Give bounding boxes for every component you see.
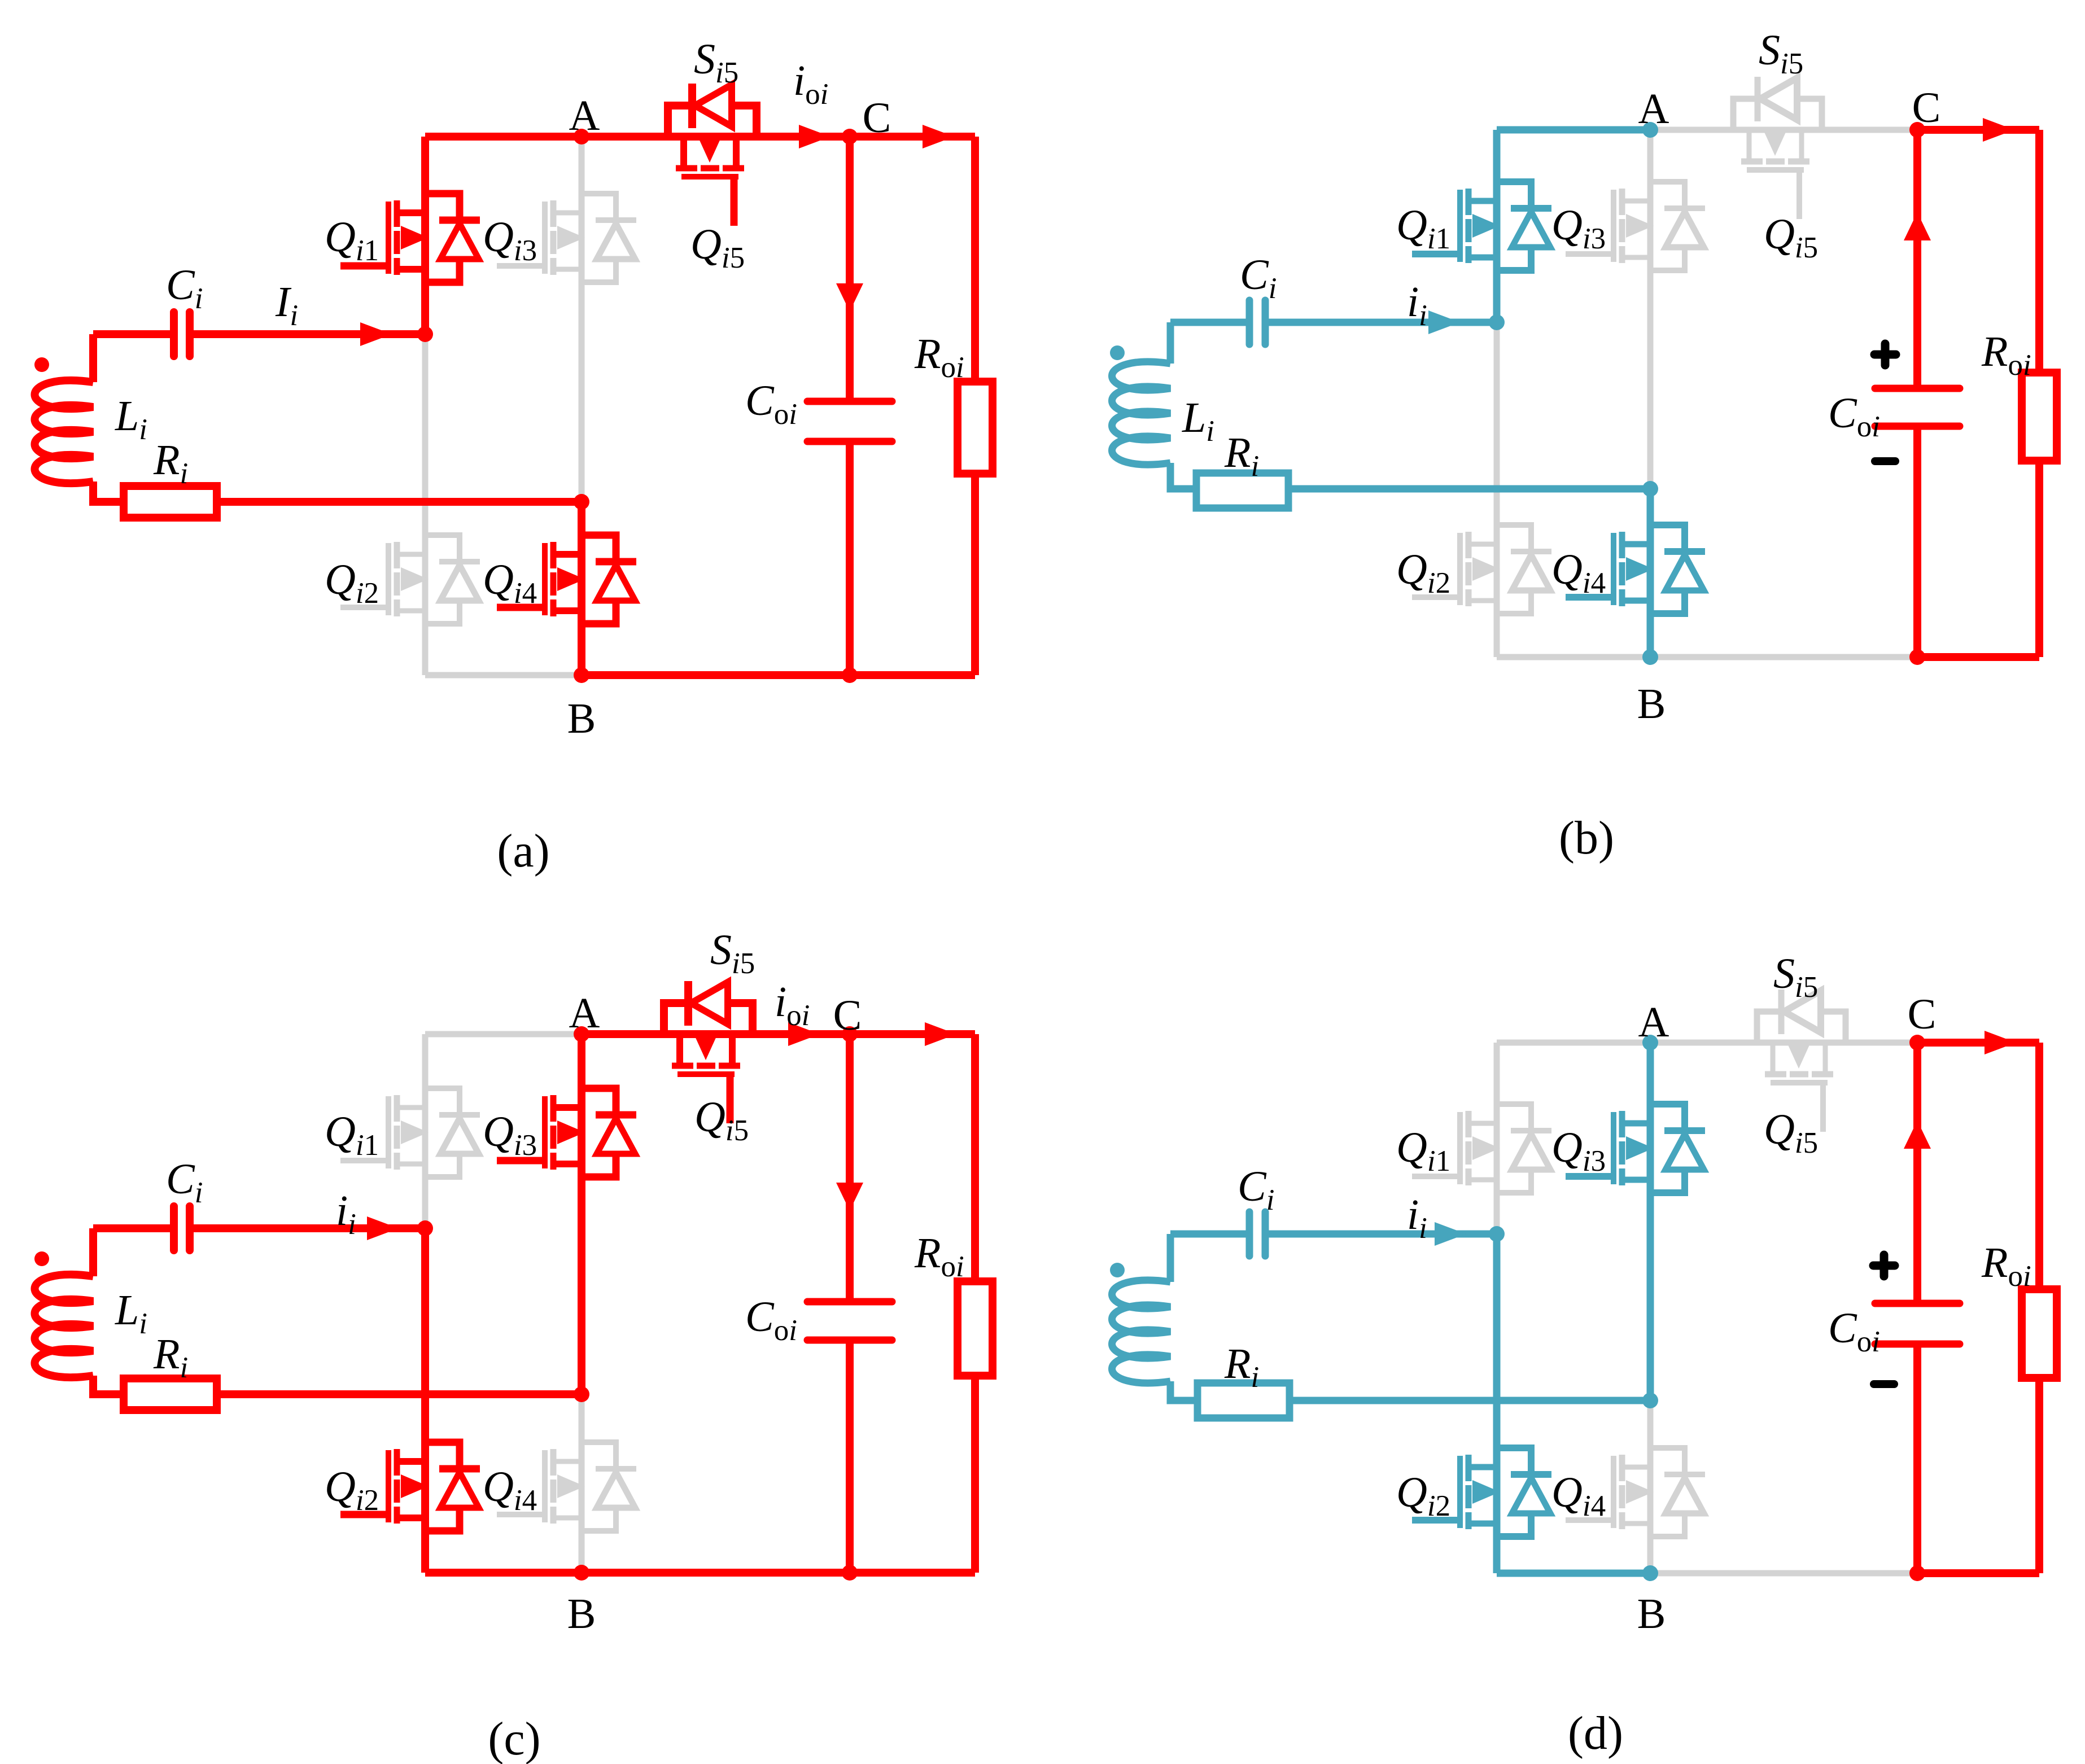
wire: inactive right-leg upper segment (a) <box>579 137 585 502</box>
current arrow ii (d) <box>1435 1222 1466 1246</box>
resistor Roi (a) <box>958 382 993 474</box>
transistor Qi3 (d) (active) <box>1611 1112 1616 1184</box>
inductor Li (c) <box>35 1275 94 1377</box>
wire: active left-leg upper segment (b) <box>1493 130 1501 322</box>
capacitor Ci (b) <box>1249 300 1265 344</box>
wire: active right-leg upper segment (c) <box>578 1034 585 1394</box>
polarity minus sign (d) <box>1874 1380 1894 1388</box>
wire: Coi branch lower segment (c) <box>846 1340 854 1573</box>
wire: active bottom-left segment (c) <box>425 1569 582 1577</box>
wire: Ii current wire into bridge (d) <box>1265 1231 1497 1238</box>
transistor Qi4 (b) (active) <box>1611 533 1616 605</box>
wire: active bottom-right output segment (b) <box>1917 653 2039 661</box>
resistor Roi (d) <box>2022 1289 2057 1378</box>
wire: Coi branch upper segment (b) <box>1913 130 1921 388</box>
wire: inductor-to-capacitor top link (d) <box>1170 1231 1249 1238</box>
wire: active right-leg lower segment (a) <box>578 502 585 675</box>
wire: right rail lower segment (d) <box>2035 1378 2043 1573</box>
svg-text:A: A <box>569 92 600 139</box>
wire: right rail lower segment (a) <box>971 474 979 675</box>
wire: Ii current wire into bridge (c) <box>190 1224 425 1232</box>
wire: left vertical above inductor (d) <box>1167 1234 1174 1282</box>
switch Si5 (d) (inactive) <box>1757 1012 1846 1043</box>
polarity plus sign (b) <box>1874 344 1896 365</box>
wire: Ii current wire into bridge (b) <box>1265 319 1497 326</box>
wire: inductor bottom to resistor Ri (c) <box>93 1376 124 1394</box>
capacitor Ci (c) <box>174 1206 190 1250</box>
winding polarity dot (c) <box>34 1251 49 1266</box>
wire: right rail lower segment (c) <box>971 1376 979 1573</box>
node: input junction dot (d) <box>1489 1226 1505 1242</box>
resistor Ri (a) <box>124 486 217 518</box>
resistor Ri (b) <box>1196 473 1288 508</box>
wire: Ri to bridge return (c) <box>217 1390 582 1398</box>
node A junction dot (c) <box>574 1026 589 1042</box>
switch Si5 (a) (active) <box>668 106 757 137</box>
wire: node C to top-right corner (d) <box>1917 1039 2039 1047</box>
node: Coi-bottom junction dot (b) <box>1909 649 1925 665</box>
svg-text:A: A <box>1638 85 1669 133</box>
wire: bottom rail from B to output (a) <box>582 671 975 679</box>
wire: node C to top-right corner (a) <box>850 133 975 141</box>
wire: left vertical above inductor (a) <box>89 334 97 382</box>
node C junction dot (d) <box>1909 1035 1925 1050</box>
svg-text:(a): (a) <box>497 825 549 877</box>
wire: inductor bottom to resistor Ri (d) <box>1170 1381 1197 1400</box>
wire: active left-leg lower segment (c) <box>421 1228 429 1573</box>
node A junction dot (a) <box>574 129 589 145</box>
wire: inductor-to-capacitor top link (b) <box>1170 319 1249 326</box>
node C junction dot (a) <box>842 129 858 145</box>
wire: inactive bottom segment B to output (b) <box>1497 654 1917 660</box>
wire: active top-left segment (b) <box>1497 126 1650 134</box>
wire: Ii current wire into bridge (a) <box>190 330 425 338</box>
current arrow on output rail (d) <box>1985 1031 2016 1054</box>
winding polarity dot (a) <box>34 357 49 372</box>
node: Coi-bottom junction dot (a) <box>842 667 858 683</box>
wire: node A to node C rail (b) (inactive) <box>1650 127 1917 133</box>
inductor Li (a) <box>35 380 94 483</box>
node C junction dot (c) <box>842 1026 858 1042</box>
node: return junction dot (d) <box>1642 1393 1658 1408</box>
svg-text:C: C <box>833 992 862 1039</box>
transistor Qi2 (b) (inactive) <box>1457 533 1463 605</box>
svg-text:C: C <box>1908 991 1937 1038</box>
wire: inactive left-leg upper segment (c) <box>422 1034 429 1228</box>
wire: inactive bottom-left segment (a) <box>425 672 582 679</box>
wire: Coi branch upper segment (c) <box>846 1034 854 1302</box>
wire: node A to node C rail (a) <box>582 133 850 141</box>
transistor Qi3 (b) (inactive) <box>1611 190 1616 262</box>
transistor Qi4 (c) (inactive) <box>542 1450 548 1522</box>
transistor Qi3 (a) (inactive) <box>542 202 548 274</box>
wire: node C to top-right corner (b) <box>1917 126 2039 134</box>
svg-text:B: B <box>1637 1590 1666 1638</box>
svg-text:A: A <box>569 990 600 1037</box>
wire: node A to node C rail (d) (inactive) <box>1650 1040 1917 1046</box>
node C junction dot (b) <box>1909 122 1925 138</box>
resistor Ri (c) <box>124 1378 217 1410</box>
node: return junction dot (c) <box>574 1386 589 1402</box>
winding polarity dot (d) <box>1110 1263 1125 1277</box>
node: return junction dot (b) <box>1642 481 1658 497</box>
wire: active top-left segment (a) <box>425 133 582 141</box>
wire: Coi branch lower segment (a) <box>846 441 854 675</box>
capacitor Coi (b) <box>1875 388 1960 426</box>
wire: Coi branch lower segment (b) <box>1913 426 1921 657</box>
wire: inactive bottom-left segment (b) <box>1497 654 1650 660</box>
node B junction dot (d) <box>1642 1565 1658 1581</box>
svg-text:(b): (b) <box>1559 812 1614 864</box>
current arrow ioi (a) <box>799 125 830 148</box>
transistor Qi1 (c) (inactive) <box>386 1096 391 1168</box>
wire: node C to top-right corner (c) <box>850 1030 975 1038</box>
node: Coi-bottom junction dot (c) <box>842 1565 858 1581</box>
wire: Coi branch upper segment (d) <box>1913 1043 1921 1303</box>
wire: right rail upper segment (b) <box>2035 130 2043 373</box>
svg-text:(c): (c) <box>488 1713 540 1764</box>
current arrow into Coi (a) <box>836 283 863 312</box>
capacitor Coi (c) <box>807 1302 892 1340</box>
wire: inactive left-leg lower segment (a) <box>422 334 429 675</box>
transistor Qi1 (a) (active) <box>386 202 391 274</box>
node B junction dot (a) <box>574 667 589 683</box>
switch Si5 (c) (active) <box>664 1003 753 1034</box>
transistor Qi3 (c) (active) <box>542 1096 548 1168</box>
wire: inactive right-leg lower segment (c) <box>579 1394 585 1573</box>
wire: inactive bottom-middle segment (d) <box>1650 1570 1917 1577</box>
current arrow on output rail (c) <box>925 1022 956 1046</box>
resistor Roi (b) <box>2022 373 2057 461</box>
resistor Roi (c) <box>958 1281 993 1376</box>
current arrow into Coi (c) <box>836 1183 863 1211</box>
wire: active bottom-right output segment (d) <box>1917 1569 2039 1577</box>
node: Coi-bottom junction dot (d) <box>1909 1565 1925 1581</box>
current arrow out of Coi (b) <box>1904 212 1931 240</box>
current arrow on output rail (b) <box>1983 118 2014 142</box>
current arrow on output rail (a) <box>923 125 954 148</box>
wire: left vertical above inductor (c) <box>89 1228 97 1276</box>
node: input junction dot (a) <box>417 326 433 342</box>
transistor Qi2 (c) (active) <box>386 1450 391 1522</box>
wire: bottom rail from B to output (c) <box>582 1569 975 1577</box>
svg-text:B: B <box>567 1590 596 1638</box>
transistor Qi2 (d) (active) <box>1457 1456 1463 1528</box>
wire: inductor bottom to resistor Ri (a) <box>93 482 124 502</box>
current arrow ii (a) <box>360 322 392 346</box>
capacitor Ci (d) <box>1249 1212 1265 1256</box>
wire: right rail lower segment (b) <box>2035 461 2043 657</box>
node: input junction dot (b) <box>1489 314 1505 330</box>
node B junction dot (b) <box>1642 649 1658 665</box>
transistor Qi1 (d) (inactive) <box>1457 1112 1463 1184</box>
svg-text:A: A <box>1638 999 1669 1046</box>
resistor Ri (d) <box>1197 1383 1290 1418</box>
svg-text:B: B <box>567 695 596 742</box>
wire: Coi branch lower segment (d) <box>1913 1344 1921 1573</box>
switch Si5 (b) (inactive) <box>1733 99 1822 130</box>
svg-text:B: B <box>1637 680 1666 728</box>
wire: inductor-to-capacitor top link (a) <box>93 330 174 338</box>
svg-text:(d): (d) <box>1568 1707 1623 1759</box>
capacitor Ci (a) <box>174 312 190 356</box>
node: return junction dot (a) <box>574 494 589 510</box>
capacitor Coi (d) <box>1875 1303 1960 1344</box>
current arrow ii (c) <box>367 1216 399 1240</box>
wire: active left-leg upper segment (a) <box>421 137 429 334</box>
wire: inactive right-leg lower segment (d) <box>1647 1400 1654 1573</box>
svg-text:C: C <box>863 94 891 142</box>
wire: active left-leg lower segment (d) <box>1493 1234 1501 1573</box>
inductor Li (d) <box>1112 1280 1171 1383</box>
capacitor Coi (a) <box>807 401 892 441</box>
node B junction dot (c) <box>574 1565 589 1581</box>
wire: Ri to bridge return (a) <box>217 498 582 506</box>
current arrow out of Coi (d) <box>1904 1120 1931 1149</box>
wire: inductor bottom to resistor Ri (b) <box>1170 463 1196 489</box>
wire: inactive left-leg upper segment (d) <box>1494 1043 1500 1234</box>
current arrow ii (b) <box>1428 310 1460 334</box>
wire: right rail upper segment (c) <box>971 1034 979 1281</box>
wire: Ri to bridge return (d) <box>1290 1397 1650 1404</box>
wire: active bottom-left segment (d) <box>1497 1570 1650 1577</box>
wire: Coi branch upper segment (a) <box>846 137 854 401</box>
transistor Qi4 (a) (active) <box>542 543 548 615</box>
polarity plus sign (d) <box>1873 1255 1895 1276</box>
wire: left vertical above inductor (b) <box>1167 322 1174 364</box>
node: input junction dot (c) <box>417 1220 433 1236</box>
wire: active right-leg lower segment (b) <box>1647 489 1654 657</box>
wire: node A to node C rail (c) <box>582 1030 850 1038</box>
transistor Qi1 (b) (active) <box>1457 190 1463 262</box>
transistor Qi2 (a) (inactive) <box>386 543 391 615</box>
wire: inductor-to-capacitor top link (c) <box>93 1224 174 1232</box>
wire: Ri to bridge return (b) <box>1288 485 1650 493</box>
current arrow ioi (c) <box>788 1022 820 1046</box>
wire: inactive top-left segment (d) <box>1497 1040 1650 1046</box>
winding polarity dot (b) <box>1110 345 1125 360</box>
wire: right rail upper segment (d) <box>2035 1043 2043 1289</box>
wire: inactive left-leg lower segment (b) <box>1494 322 1500 657</box>
wire: inactive top-left segment (c) <box>425 1031 582 1038</box>
wire: inactive right-leg upper segment (b) <box>1647 130 1654 489</box>
wire: active right-leg upper segment (d) <box>1647 1043 1654 1400</box>
node A junction dot (d) <box>1642 1035 1658 1050</box>
transistor Qi4 (d) (inactive) <box>1611 1456 1616 1528</box>
svg-text:C: C <box>1912 84 1941 132</box>
polarity minus sign (b) <box>1875 457 1895 465</box>
node A junction dot (b) <box>1642 122 1658 138</box>
inductor Li (b) <box>1112 362 1171 465</box>
wire: right rail upper segment (a) <box>971 137 979 382</box>
